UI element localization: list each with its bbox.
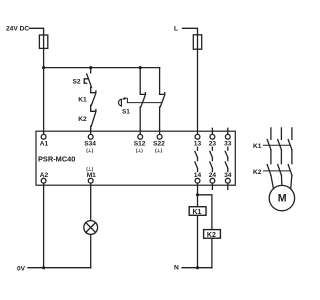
wire bus to S2 (90, 68, 92, 73)
svg-text:K2: K2 (207, 232, 216, 239)
label K2 contacts (253, 169, 290, 176)
motor M (269, 185, 294, 210)
terminal S34 (84, 134, 96, 152)
label K1 contacts (253, 143, 290, 150)
node bus-S2 junction (89, 66, 92, 69)
contact K1 pole1 (267, 140, 271, 150)
svg-text:S2: S2 (73, 78, 81, 85)
terminal A2 (40, 172, 49, 183)
node bus-A1 junction (42, 66, 45, 69)
terminal 24 (209, 172, 217, 189)
contact K2 (78, 110, 96, 127)
contact S12 (140, 68, 145, 108)
svg-text:M: M (278, 193, 287, 205)
contact 23-24 (210, 147, 213, 171)
wire S1 link (127, 102, 161, 104)
svg-text:23: 23 (209, 141, 217, 148)
wire M1 to lamp (90, 183, 92, 221)
svg-text:N: N (174, 265, 179, 272)
contact K2 pole2 (278, 165, 282, 176)
svg-text:A1: A1 (40, 141, 49, 148)
terminal S22 (153, 134, 165, 152)
wire phase L2 top (280, 128, 282, 139)
wire phase L3 mid (291, 150, 293, 164)
wire S2 to K1 contact (90, 87, 92, 93)
wire S12 lower (139, 107, 141, 134)
wire F1 to A1 (43, 48, 45, 134)
svg-text:S22: S22 (153, 141, 165, 148)
contact 33-34 (225, 147, 228, 171)
wire phase L1 top (270, 128, 272, 139)
contact K1 pole3 (288, 140, 292, 150)
svg-text:(⊥): (⊥) (136, 148, 144, 153)
node A2-0V junction (42, 266, 45, 269)
wire 0V line (28, 267, 91, 269)
svg-text:(⊥): (⊥) (86, 148, 94, 153)
terminal S12 (134, 134, 146, 152)
wire pole2 to motor (280, 175, 283, 185)
svg-text:(⊥): (⊥) (155, 148, 163, 153)
wire L to fuse F2 (183, 28, 198, 35)
svg-text:0V: 0V (17, 265, 26, 272)
contact 13-14 (195, 147, 198, 171)
svg-text:K2: K2 (253, 169, 262, 176)
coil K1 (189, 207, 206, 217)
terminal 14 (194, 172, 202, 183)
svg-text:24V DC: 24V DC (6, 26, 29, 33)
wire S22 lower (159, 107, 161, 134)
wire N line (182, 267, 212, 269)
contact S22 (160, 68, 165, 108)
svg-text:S1: S1 (122, 108, 130, 115)
node bus-S12 junction (139, 66, 142, 69)
emergency stop S1 (119, 97, 131, 115)
svg-text:K1: K1 (253, 143, 262, 150)
svg-text:S12: S12 (134, 141, 146, 148)
wire lamp to 0V (90, 234, 92, 267)
node K1-N junction (196, 266, 199, 269)
relay PSR-MC40 body (36, 131, 235, 185)
wire 24VDC to fuse F1 (30, 28, 44, 35)
svg-text:K2: K2 (78, 116, 87, 123)
wire phase L3 top (291, 128, 293, 139)
svg-text:K1: K1 (193, 209, 202, 216)
terminal 23 (209, 128, 217, 147)
contact K2 pole3 (288, 165, 292, 176)
svg-text:S34: S34 (84, 141, 96, 148)
contact K1 (78, 91, 96, 106)
terminal A1 (40, 134, 49, 147)
fuse F1 (39, 35, 47, 48)
wire K1 to K2 contact (90, 105, 92, 111)
wire branch to K2 coil (198, 195, 212, 268)
lamp H1 (84, 221, 98, 235)
terminal 13 (194, 134, 202, 147)
fuse F2 (193, 35, 201, 49)
svg-text:33: 33 (224, 141, 232, 148)
wire F2 to 13 (197, 49, 199, 134)
terminal M1 (86, 167, 96, 184)
node K2 branch junction (196, 193, 199, 196)
wire K2 to S34 (90, 126, 92, 134)
wire phase L1 mid (270, 150, 272, 164)
contact K2 pole1 (267, 165, 271, 176)
svg-text:PSR-MC40: PSR-MC40 (38, 155, 75, 164)
svg-text:K1: K1 (78, 96, 87, 103)
svg-text:13: 13 (194, 141, 202, 148)
wire pole3 to motor (291, 175, 292, 188)
wire pole1 to motor (271, 175, 274, 188)
wire 14 to N (197, 183, 199, 268)
wire A2 to 0V (43, 183, 45, 268)
terminal 33 (224, 128, 232, 147)
svg-text:L: L (174, 26, 178, 33)
wire top bus (44, 67, 160, 69)
switch S2 (73, 74, 92, 87)
coil K2 (204, 230, 221, 240)
contact K1 pole2 (278, 140, 282, 150)
svg-text:(⊥): (⊥) (86, 167, 94, 172)
terminal 34 (224, 172, 232, 189)
wire phase L2 mid (280, 150, 282, 164)
